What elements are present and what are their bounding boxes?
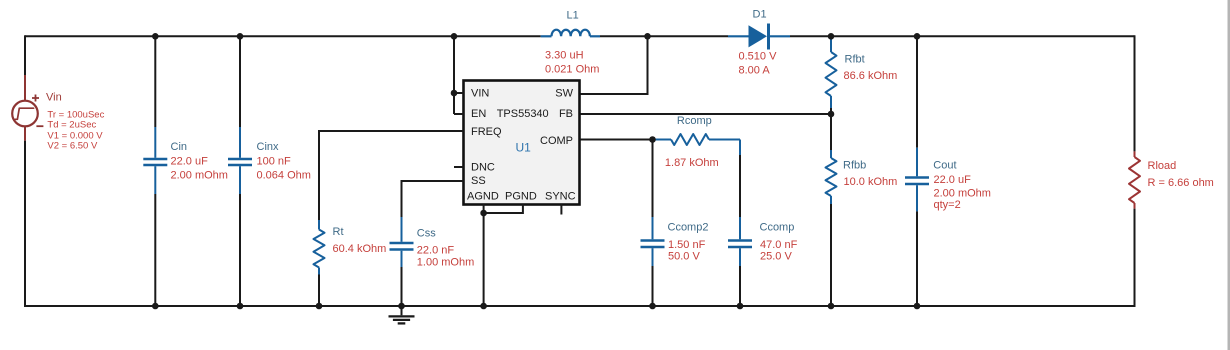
inductor L1 [541,30,600,37]
junction top rail at Rfbt [828,33,835,40]
wire SYNC stub [560,204,562,215]
svg-text:R = 6.66 ohm: R = 6.66 ohm [1148,177,1214,189]
diode D1 [728,24,790,50]
svg-text:Cin: Cin [171,141,188,153]
svg-text:Cout: Cout [933,160,956,172]
junction top rail at Cin [152,33,159,40]
voltage source Vin [12,75,43,141]
svg-text:PGND: PGND [505,191,537,203]
junction COMP node [649,136,656,143]
svg-text:SS: SS [471,175,486,187]
junction bottom rail at Cinx [237,303,244,310]
resistor Rload [1129,151,1140,208]
wire COMP net [581,139,653,141]
resistor Rcomp [653,134,741,155]
svg-text:FB: FB [559,108,573,120]
junction AGND PGND node [480,210,487,217]
svg-text:Css: Css [417,227,436,239]
wire PGND stub elbow [484,204,523,213]
capacitor Cout [905,35,929,306]
wire EN pin stub [454,113,464,115]
svg-text:DNC: DNC [471,162,495,174]
junction top rail at Cinx [237,33,244,40]
svg-text:22.0 uF: 22.0 uF [934,174,972,186]
svg-text:50.0 V: 50.0 V [668,250,700,262]
svg-text:Ccomp2: Ccomp2 [668,222,709,234]
svg-text:TPS55340: TPS55340 [497,108,549,120]
wire VIN pin stub [454,92,464,94]
svg-text:Rfbb: Rfbb [843,160,866,172]
svg-text:25.0 V: 25.0 V [760,250,792,262]
svg-text:Rload: Rload [1148,160,1177,172]
svg-text:SW: SW [555,88,573,100]
junction top rail at SW branch [644,33,651,40]
capacitor Ccomp2 [641,140,665,307]
svg-text:COMP: COMP [540,135,573,147]
svg-text:8.00 A: 8.00 A [739,64,771,76]
wire top rail middle segment [600,35,728,37]
capacitor Css [390,217,414,306]
wire top rail right segment [790,35,1135,37]
svg-text:100 nF: 100 nF [257,156,292,168]
svg-text:86.6 kOhm: 86.6 kOhm [844,70,898,82]
svg-text:D1: D1 [753,9,767,21]
svg-text:10.0 kOhm: 10.0 kOhm [844,176,898,188]
wire AGND to ground rail [483,213,485,306]
junction bottom rail at Ccomp2 [649,303,656,310]
svg-text:U1: U1 [516,141,532,155]
wire VIN/EN branch vertical [453,35,455,114]
junction bottom rail at Rt [316,303,323,310]
resistor Rfbt [826,36,837,114]
svg-text:0.510 V: 0.510 V [739,51,778,63]
svg-text:Ccomp: Ccomp [760,222,795,234]
wire right rail upper [1134,35,1136,151]
wire right rail lower [1134,209,1136,307]
junction bottom rail at Cout [914,303,921,310]
junction bottom rail at Rfbb [828,303,835,310]
junction bottom rail at Ccomp [737,303,744,310]
capacitor Cin [143,35,167,306]
svg-text:2.00 mOhm: 2.00 mOhm [934,188,991,200]
capacitor Ccomp [728,155,752,306]
junction top rail at Cout [914,33,921,40]
svg-text:1.00 mOhm: 1.00 mOhm [417,256,474,268]
svg-text:3.30 uH: 3.30 uH [545,50,584,62]
svg-text:Rcomp: Rcomp [677,115,712,127]
wire AGND stub [483,204,485,213]
junction bottom rail at Cin [152,303,159,310]
wire left rail upper [24,35,26,75]
svg-text:SYNC: SYNC [545,191,576,203]
wire left rail lower [24,141,26,307]
right edge panel border [1228,0,1230,350]
svg-text:Rfbt: Rfbt [845,54,865,66]
svg-text:60.4 kOhm: 60.4 kOhm [333,243,387,255]
resistor Rfbb [826,114,837,306]
junction VIN pin [451,90,458,97]
svg-text:AGND: AGND [467,191,499,203]
junction top rail at VIN branch [451,33,458,40]
wire SW pin to top rail [581,35,648,94]
svg-text:0.021 Ohm: 0.021 Ohm [545,63,599,75]
svg-text:Vin: Vin [46,92,62,104]
wire DNC no-connect stub [454,166,464,168]
junction bottom rail at Css ground [398,303,405,310]
svg-text:qty=2: qty=2 [934,199,961,211]
wire FB net [581,113,832,115]
svg-text:Rt: Rt [333,226,344,238]
svg-text:Td = 2uSec: Td = 2uSec [47,120,96,131]
wire top rail left segment [25,35,541,37]
svg-text:VIN: VIN [471,88,489,100]
svg-text:22.0 uF: 22.0 uF [171,156,209,168]
IC U1 TPS55340 body [464,81,580,205]
svg-text:FREQ: FREQ [471,126,502,138]
wire bottom rail [25,305,1135,307]
svg-text:1.87 kOhm: 1.87 kOhm [665,157,719,169]
svg-text:0.064 Ohm: 0.064 Ohm [257,169,311,181]
junction FB node [828,111,835,118]
svg-text:EN: EN [471,108,486,120]
ground symbol [389,306,415,323]
svg-text:22.0 nF: 22.0 nF [417,245,455,257]
capacitor Cinx [228,35,252,306]
wire SS pin stub to Css [402,181,464,217]
svg-text:Cinx: Cinx [257,141,280,153]
svg-text:L1: L1 [567,10,579,22]
resistor Rt [314,220,325,306]
svg-text:2.00 mOhm: 2.00 mOhm [171,169,228,181]
svg-text:V2 = 6.50 V: V2 = 6.50 V [47,141,98,152]
wire FREQ pin stub to Rt [319,131,464,220]
junction bottom rail at AGND [480,303,487,310]
